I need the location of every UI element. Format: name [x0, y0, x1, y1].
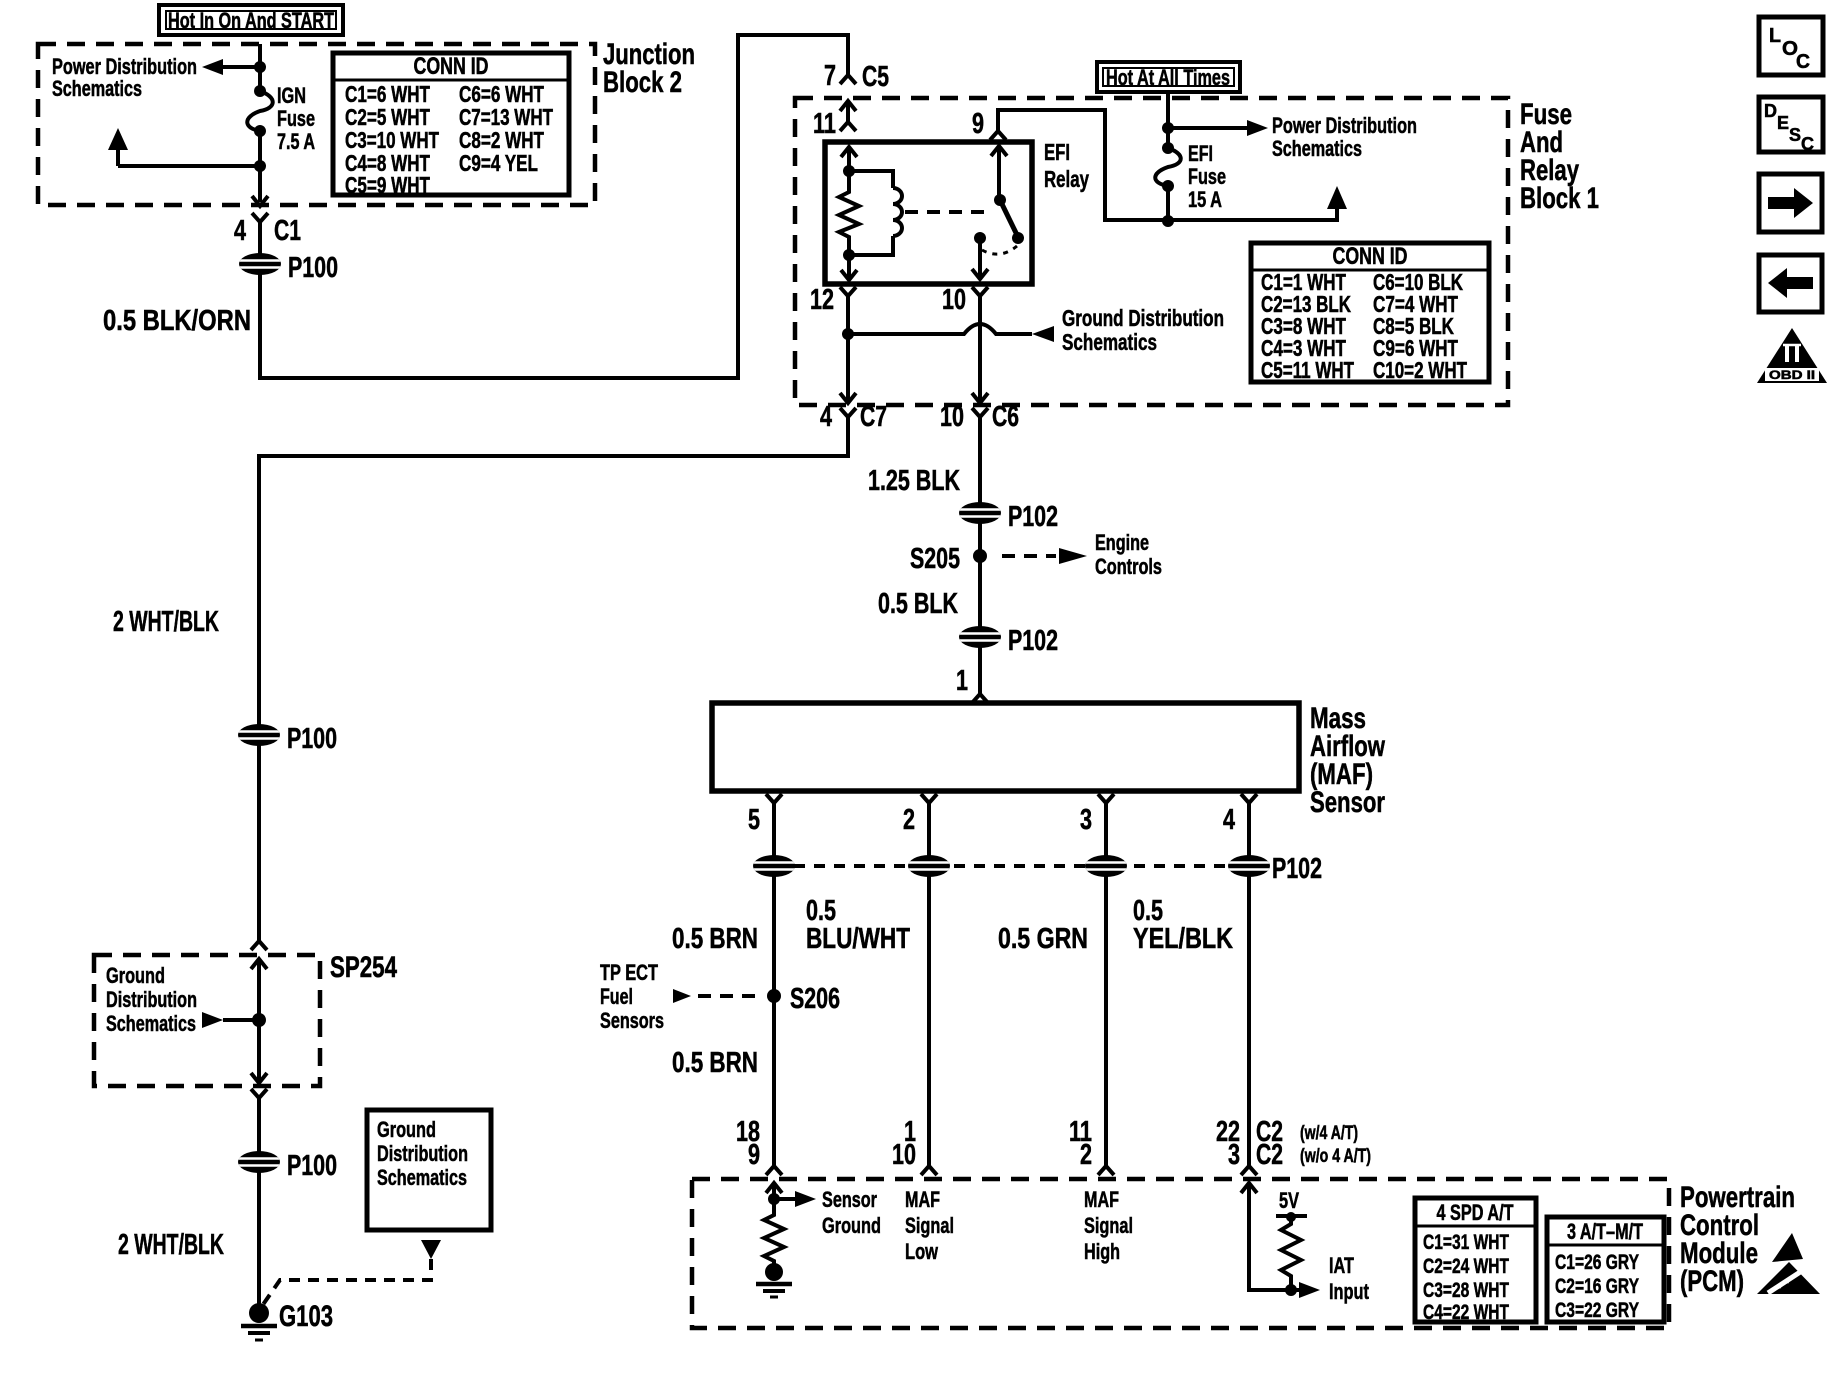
svg-text:(w/4 A/T): (w/4 A/T)	[1300, 1123, 1358, 1144]
svg-text:Hot At All Times: Hot At All Times	[1106, 65, 1230, 90]
svg-text:S205: S205	[910, 543, 960, 575]
svg-text:C9=4 YEL: C9=4 YEL	[459, 150, 538, 176]
text Engine Controls	[1095, 530, 1162, 579]
relay coil branch	[849, 171, 893, 188]
svg-text:OBD II: OBD II	[1769, 368, 1815, 382]
dashed wire to engine controls	[1002, 554, 1056, 558]
relay coil	[893, 188, 902, 236]
svg-text:IAT: IAT	[1329, 1253, 1354, 1278]
CONN ID table (junction block)	[333, 53, 569, 198]
wire to power distribution ref	[1168, 126, 1247, 130]
svg-text:0.5 BRN: 0.5 BRN	[672, 923, 758, 955]
node dot branch	[254, 160, 266, 172]
svg-text:5V: 5V	[1279, 1188, 1299, 1213]
arrow ground distribution	[1032, 326, 1054, 342]
wire branch left	[118, 164, 260, 168]
connector C6 fork	[972, 408, 988, 417]
dashed wire to G103	[262, 1259, 431, 1306]
pin labels above PCM	[736, 1116, 1240, 1171]
wire C1 to P100	[258, 222, 262, 378]
svg-text:9: 9	[748, 1139, 760, 1171]
wire label 0.5 BLU/WHT	[806, 895, 910, 955]
svg-text:(PCM): (PCM)	[1680, 1265, 1744, 1298]
wire top horizontal	[736, 33, 848, 37]
wire ground distribution reference with hop	[848, 324, 1032, 334]
text Power Distribution Schematics (right)	[1272, 113, 1417, 161]
wire 5V reference routing	[1249, 1183, 1291, 1290]
connector P102 grommet x=1249	[1228, 855, 1270, 877]
wire MAF pin3 down	[1104, 803, 1108, 1166]
svg-text:(w/o 4 A/T): (w/o 4 A/T)	[1300, 1146, 1371, 1167]
CONN ID table (relay block)	[1251, 243, 1489, 383]
arrow TP ECT sensors	[673, 989, 691, 1003]
connector P102 grommet 2	[959, 626, 1001, 648]
node sensor ground dot	[768, 1193, 780, 1205]
relay switch pivot dot	[994, 194, 1006, 206]
connector pin3 PCM arrow	[1241, 1183, 1257, 1193]
connector SP254 bottom fork	[251, 1089, 267, 1098]
svg-text:Sensor: Sensor	[1310, 786, 1385, 819]
svg-text:S206: S206	[790, 983, 840, 1015]
svg-text:Signal: Signal	[905, 1213, 954, 1238]
arrow right power distribution	[1247, 120, 1268, 136]
relay switch contact dot	[974, 232, 986, 244]
svg-text:Ground Distribution: Ground Distribution	[1062, 305, 1224, 331]
resistor IAT pullup	[1281, 1216, 1301, 1290]
svg-text:CONN ID: CONN ID	[1333, 243, 1408, 270]
splice S206 dot	[767, 989, 781, 1003]
connector pin2 fork at PCM	[921, 1166, 937, 1175]
svg-text:MAF: MAF	[1084, 1187, 1119, 1212]
svg-text:Relay: Relay	[1044, 166, 1089, 192]
relay pin10 arrow	[972, 269, 988, 279]
svg-text:P102: P102	[1272, 853, 1322, 885]
svg-text:C5: C5	[862, 61, 889, 93]
relay pin12 arrow	[841, 270, 857, 280]
wire below fuse	[258, 131, 262, 202]
svg-text:7: 7	[824, 60, 836, 92]
svg-text:2 WHT/BLK: 2 WHT/BLK	[118, 1229, 224, 1261]
label 4 C1	[234, 215, 301, 247]
node ground distribution junction dot	[842, 328, 854, 340]
svg-text:S: S	[1789, 125, 1801, 145]
table 4 SPD A/T	[1415, 1198, 1536, 1324]
svg-text:0.5 BLK/ORN: 0.5 BLK/ORN	[103, 305, 251, 337]
connector MAF pin2 fork	[921, 794, 937, 803]
svg-text:C7: C7	[860, 401, 887, 433]
label Fuse And Relay Block 1	[1520, 98, 1599, 215]
label 7 C5	[824, 60, 889, 93]
svg-text:C3=22 GRY: C3=22 GRY	[1555, 1299, 1639, 1322]
relay switch feed arrow	[991, 146, 1007, 156]
svg-text:1: 1	[956, 665, 968, 697]
PCM dashed box	[692, 1179, 1669, 1328]
wire C6 down to P102	[978, 417, 982, 694]
svg-text:2 WHT/BLK: 2 WHT/BLK	[113, 606, 219, 638]
connector pin11 fork	[840, 122, 856, 131]
svg-text:C10=2 WHT: C10=2 WHT	[1373, 357, 1467, 383]
connector pin9 fork	[990, 131, 1006, 140]
svg-text:C1: C1	[274, 215, 301, 247]
arrow to power distribution schematics	[202, 59, 223, 75]
svg-text:4: 4	[1223, 804, 1235, 836]
connector P102 grommet x=1106	[1085, 855, 1127, 877]
label EFI Relay	[1044, 139, 1089, 192]
svg-text:TP ECT: TP ECT	[600, 960, 658, 985]
svg-text:Fuse: Fuse	[277, 106, 315, 131]
text MAF Signal Low	[905, 1187, 954, 1264]
svg-text:10: 10	[892, 1139, 916, 1171]
dashed connector line P102 row	[774, 864, 1249, 868]
connector SP254 fork	[251, 941, 267, 950]
svg-text:L: L	[1769, 25, 1781, 47]
connector MAF pin3 fork	[1098, 794, 1114, 803]
wire below EFI fuse	[1166, 186, 1170, 222]
arrow SP254 reference	[202, 1012, 223, 1028]
relay switch output wire	[978, 238, 982, 277]
table 3 A/T-M/T	[1547, 1217, 1664, 1322]
MAF sensor box	[712, 703, 1299, 791]
svg-text:Distribution: Distribution	[377, 1141, 468, 1166]
svg-text:G103: G103	[279, 1300, 333, 1333]
wire horizontal C7 to left riser	[259, 454, 848, 458]
svg-text:0.5 BLK: 0.5 BLK	[878, 588, 958, 620]
wire MAF pin4 down	[1247, 803, 1251, 1166]
wire pin9 routing	[998, 110, 1337, 220]
connector pin11 arrow	[840, 101, 856, 111]
svg-text:C2=16 GRY: C2=16 GRY	[1555, 1275, 1639, 1298]
connector P100 grommet 2	[238, 724, 280, 746]
label C2 w/4 A/T	[1256, 1116, 1358, 1148]
wire left riser down	[257, 454, 261, 941]
svg-text:Ground: Ground	[377, 1117, 436, 1142]
wire pin10 down	[978, 296, 982, 401]
svg-text:Schematics: Schematics	[1272, 136, 1362, 161]
wire sensor ground arrow	[774, 1197, 795, 1201]
arrow up to power distribution feed	[1327, 186, 1347, 209]
wire SP254 reference	[223, 1018, 259, 1022]
connector P102 grommet x=929	[908, 855, 950, 877]
node junction dot	[254, 61, 266, 73]
svg-text:SP254: SP254	[330, 951, 397, 984]
svg-text:C5=9 WHT: C5=9 WHT	[345, 172, 430, 198]
wire MAF pin2 down	[927, 803, 931, 1166]
svg-text:10: 10	[940, 401, 964, 433]
connector pin9 PCM arrow	[766, 1183, 782, 1193]
svg-text:Fuel: Fuel	[600, 984, 633, 1009]
relay coil ground wire	[847, 255, 851, 278]
wire ignition feed vertical	[258, 44, 262, 91]
svg-text:Ground: Ground	[106, 963, 165, 988]
text MAF Signal High	[1084, 1187, 1133, 1264]
svg-text:4: 4	[234, 215, 246, 247]
connector C7 arrow	[840, 393, 856, 403]
svg-text:Input: Input	[1329, 1279, 1369, 1304]
connector C6 arrow	[972, 393, 988, 403]
connector C1 male arrow	[252, 196, 268, 206]
svg-text:EFI: EFI	[1044, 139, 1070, 165]
svg-text:E: E	[1777, 113, 1789, 133]
svg-text:Power Distribution: Power Distribution	[1272, 113, 1417, 138]
svg-text:C1=31 WHT: C1=31 WHT	[1423, 1231, 1509, 1254]
wire pin12 down	[846, 296, 850, 401]
label Junction Block 2	[603, 38, 695, 99]
svg-text:Schematics: Schematics	[52, 76, 142, 101]
junction block 2 dashed box	[38, 44, 595, 205]
wire EFI fuse feed	[1166, 92, 1170, 148]
connector P102 grommet x=774	[753, 855, 795, 877]
fuse IGN Fuse 7.5 A	[254, 85, 266, 97]
node IAT dot	[1285, 1284, 1297, 1296]
svg-text:12: 12	[810, 284, 834, 316]
svg-text:Signal: Signal	[1084, 1213, 1133, 1238]
svg-text:C3=28 WHT: C3=28 WHT	[1423, 1279, 1509, 1302]
wire bottom horizontal to relay block	[258, 376, 738, 380]
svg-text:P100: P100	[287, 723, 337, 755]
splice S205 dot	[973, 549, 987, 563]
dashed wire to S206	[698, 994, 762, 998]
node dot EFI feed	[1162, 122, 1174, 134]
svg-text:3 A/T–M/T: 3 A/T–M/T	[1567, 1219, 1643, 1244]
svg-text:Schematics: Schematics	[377, 1165, 467, 1190]
svg-text:Block 2: Block 2	[603, 66, 682, 99]
text Ground Distribution Schematics	[1062, 305, 1224, 355]
connector pin10 fork	[972, 287, 988, 296]
wire label 0.5 YEL/BLK	[1133, 895, 1233, 955]
connector C5 fork	[840, 75, 856, 84]
svg-text:IGN: IGN	[277, 83, 306, 108]
relay resistor	[839, 171, 859, 255]
svg-text:Distribution: Distribution	[106, 987, 197, 1012]
ground G103 symbol	[241, 1303, 277, 1340]
relay switch dashed arc	[982, 246, 1017, 254]
svg-text:10: 10	[942, 284, 966, 316]
svg-text:1.25 BLK: 1.25 BLK	[868, 465, 960, 497]
svg-text:5: 5	[748, 804, 760, 836]
svg-text:D: D	[1764, 101, 1777, 121]
text Ground Distribution Schematics (SP254)	[106, 963, 197, 1036]
icon LOC	[1759, 17, 1823, 75]
svg-text:4 SPD A/T: 4 SPD A/T	[1437, 1200, 1514, 1225]
svg-text:2: 2	[903, 804, 915, 836]
arrow engine controls	[1059, 548, 1087, 564]
svg-text:Hot In On And START: Hot In On And START	[168, 8, 334, 33]
label EFI Fuse 15 A	[1188, 141, 1226, 212]
svg-text:Schematics: Schematics	[1062, 329, 1157, 355]
relay node top dot	[843, 165, 855, 177]
svg-text:Fuse: Fuse	[1188, 164, 1226, 189]
relay switch blade	[1000, 200, 1018, 237]
connector MAF pin5 fork	[766, 794, 782, 803]
svg-text:CONN ID: CONN ID	[414, 53, 489, 80]
connector P100 grommet 3	[238, 1151, 280, 1173]
svg-text:C: C	[1796, 51, 1810, 73]
connector pin4 fork at PCM	[1241, 1166, 1257, 1175]
splice SP254 dot	[252, 1013, 266, 1027]
connector C7 fork	[840, 408, 856, 417]
resistor PCM sensor ground	[764, 1211, 784, 1264]
wire down to G103	[257, 1098, 261, 1306]
SP254 dashed box	[94, 955, 320, 1086]
node dot fuse output	[1162, 215, 1174, 227]
relay coil feed arrow	[841, 147, 857, 157]
svg-text:2: 2	[1080, 1139, 1092, 1171]
icon OBD II triangle	[1757, 328, 1827, 383]
wire down to C5	[846, 33, 850, 66]
svg-text:3: 3	[1080, 804, 1092, 836]
icon DESC	[1759, 97, 1823, 154]
connector P100 grommet	[239, 253, 281, 275]
icon arrow left	[1759, 255, 1822, 312]
text IAT Input	[1329, 1253, 1369, 1304]
label Mass Airflow (MAF) Sensor	[1310, 702, 1385, 819]
ESD warning triangles	[1757, 1233, 1820, 1294]
connector MAF pin4 fork	[1241, 794, 1257, 803]
wire vertical riser	[736, 35, 740, 380]
svg-text:9: 9	[972, 108, 984, 140]
svg-text:P102: P102	[1008, 501, 1058, 533]
svg-text:C4=22 WHT: C4=22 WHT	[1423, 1301, 1509, 1324]
svg-text:0.5 BRN: 0.5 BRN	[672, 1047, 758, 1079]
EFI relay box	[825, 142, 1032, 284]
ground distribution schematics solid box	[367, 1110, 491, 1230]
label C2 w/o 4 A/T	[1256, 1139, 1371, 1171]
svg-text:P100: P100	[287, 1150, 337, 1182]
label box "Hot At All Times"	[1097, 62, 1240, 92]
text TP ECT Fuel Sensors	[600, 960, 664, 1033]
svg-text:15 A: 15 A	[1188, 187, 1222, 212]
svg-text:C1=26 GRY: C1=26 GRY	[1555, 1251, 1639, 1274]
svg-text:Engine: Engine	[1095, 530, 1149, 555]
svg-text:Schematics: Schematics	[106, 1011, 196, 1036]
svg-text:Controls: Controls	[1095, 554, 1162, 579]
svg-text:Sensor: Sensor	[822, 1187, 877, 1212]
connector C1 female fork	[252, 213, 268, 222]
svg-text:EFI: EFI	[1188, 141, 1213, 166]
svg-text:BLU/WHT: BLU/WHT	[806, 923, 910, 955]
svg-text:3: 3	[1228, 1139, 1240, 1171]
wire MAF pin5 down	[772, 803, 776, 1166]
svg-text:C: C	[1801, 134, 1814, 154]
svg-text:High: High	[1084, 1239, 1120, 1264]
svg-text:Ground: Ground	[822, 1213, 881, 1238]
fuse and relay block 1 dashed box	[795, 98, 1508, 405]
svg-text:7.5 A: 7.5 A	[277, 129, 315, 154]
svg-text:Block 1: Block 1	[1520, 182, 1599, 215]
relay node bottom dot	[843, 249, 855, 261]
svg-text:C2=24 WHT: C2=24 WHT	[1423, 1255, 1509, 1278]
icon arrow right	[1759, 174, 1822, 232]
svg-text:0.5 GRN: 0.5 GRN	[998, 923, 1088, 955]
arrow IAT input	[1291, 1288, 1299, 1292]
connector pin3 fork at PCM	[1098, 1166, 1114, 1175]
connector pin12 fork	[840, 287, 856, 296]
connector pin5 fork at PCM	[766, 1166, 782, 1175]
5V rail bar	[1276, 1214, 1307, 1218]
arrow up branch	[116, 148, 120, 166]
connector SP254 arrow	[251, 959, 267, 969]
connector MAF pin1 fork	[972, 694, 988, 703]
svg-text:YEL/BLK: YEL/BLK	[1133, 923, 1233, 955]
connector SP254 bottom arrow	[251, 1073, 267, 1083]
arrow down from ground distribution box	[421, 1240, 441, 1259]
label box "Hot In On And START"	[159, 5, 343, 35]
svg-text:C2: C2	[1256, 1139, 1283, 1171]
ground symbol PCM	[756, 1263, 792, 1297]
label IGN Fuse 7.5 A	[277, 83, 315, 154]
svg-text:P100: P100	[288, 252, 338, 284]
svg-text:MAF: MAF	[905, 1187, 940, 1212]
text Power Distribution Schematics	[52, 54, 197, 101]
svg-text:4: 4	[820, 401, 832, 433]
relay coil-switch dashed link	[905, 210, 985, 214]
svg-text:C6: C6	[992, 401, 1019, 433]
svg-text:Low: Low	[905, 1239, 939, 1264]
svg-text:C5=11 WHT: C5=11 WHT	[1261, 357, 1354, 383]
svg-text:P102: P102	[1008, 625, 1058, 657]
svg-text:11: 11	[813, 108, 836, 140]
connector P102 grommet 1	[959, 502, 1001, 524]
fuse EFI Fuse 15 A	[1162, 142, 1174, 154]
wire to power distribution reference	[215, 65, 260, 69]
svg-text:Sensors: Sensors	[600, 1008, 664, 1033]
text Sensor Ground	[822, 1187, 881, 1238]
label Powertrain Control Module (PCM)	[1680, 1181, 1795, 1298]
